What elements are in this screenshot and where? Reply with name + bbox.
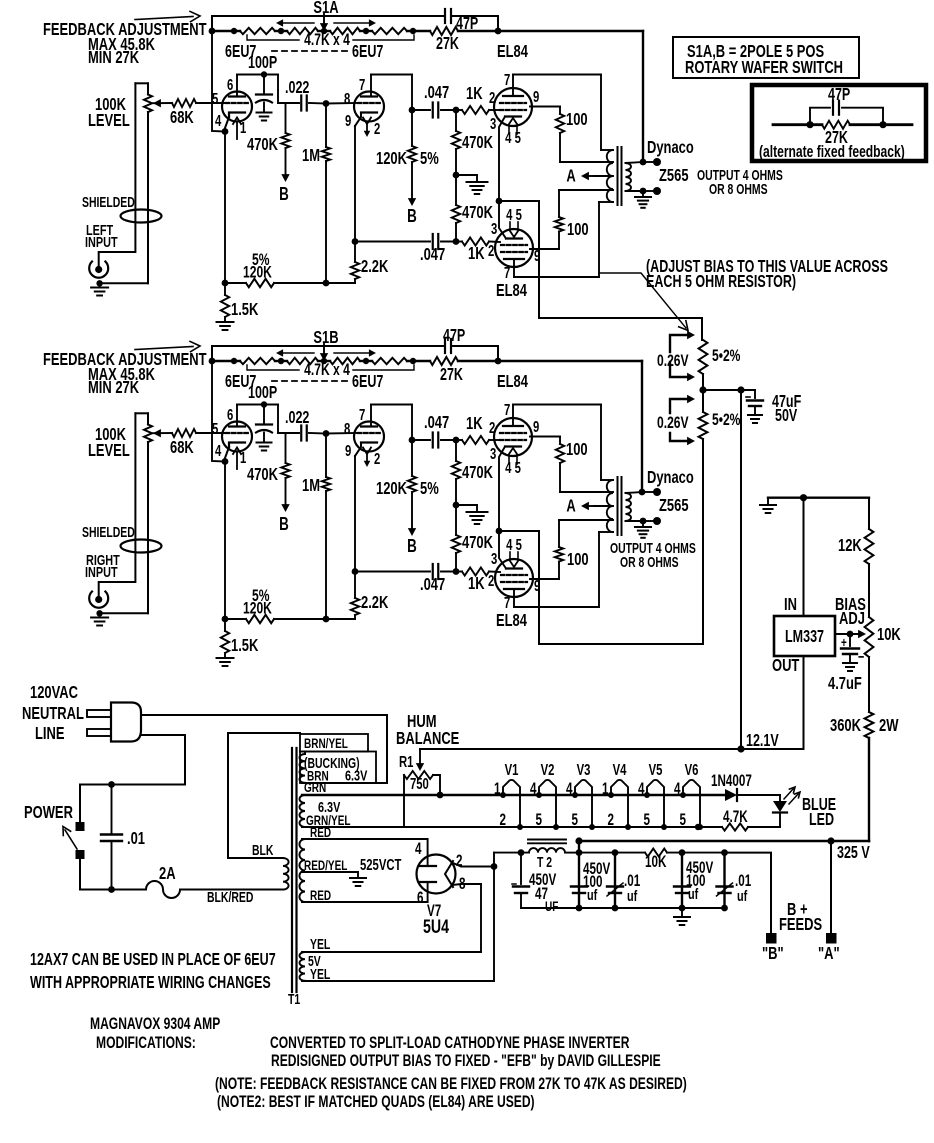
resistor 1K grid stopper lower (right channel) bbox=[456, 571, 462, 573]
capacitor 100P (right channel) bbox=[261, 401, 267, 407]
center tap A arrow (left channel) bbox=[594, 175, 613, 177]
wire feedback to output (right channel) bbox=[498, 360, 642, 362]
wire EL84 lower cathode (left channel) bbox=[499, 201, 506, 239]
choke T2 bbox=[494, 852, 529, 854]
wire top feedback line (right channel) bbox=[212, 345, 444, 347]
input jack right (right channel) bbox=[89, 592, 108, 608]
svg-text:12K: 12K bbox=[838, 536, 862, 556]
wire bottom rail (right channel) bbox=[225, 618, 246, 620]
svg-text:6.3V: 6.3V bbox=[345, 767, 368, 784]
transformer secondary (right channel) bbox=[626, 493, 632, 521]
resistor 120K 5% tail (right channel) bbox=[246, 615, 274, 623]
capacitor 47UF 450V bbox=[518, 849, 525, 856]
svg-text:LM337: LM337 bbox=[785, 627, 824, 647]
svg-text:WITH APPROPRIATE WIRING CHANGE: WITH APPROPRIATE WIRING CHANGES bbox=[30, 973, 271, 993]
transformer output primary (left channel) bbox=[607, 150, 613, 202]
svg-text:MAGNAVOX 9304 AMP: MAGNAVOX 9304 AMP bbox=[90, 1015, 220, 1033]
note adjust bias pointer arrow bbox=[600, 273, 686, 328]
svg-text:470K: 470K bbox=[462, 463, 494, 483]
svg-text:"A": "A" bbox=[818, 944, 840, 964]
capacitor .047 upper (right channel) bbox=[412, 439, 430, 441]
svg-text:uf: uf bbox=[688, 885, 699, 902]
tube EL84 upper (right channel) bbox=[494, 418, 532, 456]
svg-text:470K: 470K bbox=[247, 465, 279, 485]
svg-text:.047: .047 bbox=[424, 83, 449, 103]
wire grid input (left channel) bbox=[196, 102, 226, 104]
svg-text:1: 1 bbox=[602, 779, 609, 797]
transformer T1 5V winding bbox=[300, 952, 306, 981]
center tap A arrow (right channel) bbox=[594, 505, 613, 507]
resistor 120K 5% plate load (left channel) bbox=[411, 110, 413, 146]
svg-text:.022: .022 bbox=[285, 78, 309, 98]
svg-text:4: 4 bbox=[415, 839, 422, 857]
svg-text:B: B bbox=[407, 536, 417, 557]
capacitor .022 (left channel) bbox=[300, 96, 302, 111]
svg-text:4.7K: 4.7K bbox=[723, 807, 748, 825]
center tap ground bbox=[302, 871, 358, 873]
svg-text:47P: 47P bbox=[828, 85, 850, 105]
svg-text:470K: 470K bbox=[462, 203, 494, 223]
wire to splitter grid (right channel) bbox=[326, 432, 358, 435]
svg-text:100: 100 bbox=[566, 440, 588, 460]
svg-text:100P: 100P bbox=[248, 53, 277, 73]
wire LM337 in bbox=[803, 498, 805, 616]
svg-text:4.7uF: 4.7uF bbox=[828, 674, 862, 694]
wire plate node to coupling cap (left channel) bbox=[278, 102, 299, 104]
svg-text:4 5: 4 5 bbox=[505, 129, 521, 146]
svg-text:4.7K x 4: 4.7K x 4 bbox=[304, 361, 350, 379]
bracket 4.7K x 4 label (left channel) bbox=[247, 35, 299, 40]
capacitor 47uF 50V bbox=[747, 389, 755, 391]
wire splitter cathode (left channel) bbox=[354, 126, 356, 242]
svg-text:5: 5 bbox=[212, 90, 219, 107]
svg-text:1: 1 bbox=[494, 779, 501, 797]
svg-text:ADJ: ADJ bbox=[839, 609, 865, 629]
wire input ground (right channel) bbox=[103, 612, 148, 614]
shield ellipse (left channel) bbox=[121, 210, 162, 223]
capacitor .022 (right channel) bbox=[300, 426, 302, 441]
svg-text:BRN/YEL: BRN/YEL bbox=[304, 735, 348, 751]
svg-text:GRN: GRN bbox=[304, 779, 326, 795]
feedback adjustment arrow (left channel) bbox=[135, 17, 193, 20]
svg-text:8: 8 bbox=[344, 90, 351, 107]
svg-text:EACH 5 OHM RESISTOR): EACH 5 OHM RESISTOR) bbox=[646, 272, 796, 292]
svg-text:INPUT: INPUT bbox=[85, 563, 118, 580]
resistor 100 screen upper (left channel) bbox=[530, 106, 560, 108]
svg-text:6EU7: 6EU7 bbox=[352, 42, 383, 62]
label box BUCKING bbox=[300, 752, 376, 784]
svg-text:7: 7 bbox=[504, 264, 510, 281]
wire input ground (left channel) bbox=[103, 282, 148, 284]
tube EL84 lower (right channel) bbox=[495, 559, 533, 597]
ground secondary (right channel) bbox=[642, 521, 644, 527]
svg-text:(NOTE: FEEDBACK RESISTANCE CAN: (NOTE: FEEDBACK RESISTANCE CAN BE FIXED … bbox=[215, 1075, 687, 1093]
ground 470K center (right channel) bbox=[456, 504, 477, 506]
transformer output primary (right channel) bbox=[607, 480, 613, 532]
transformer T1 HV winding 525VCT bbox=[299, 839, 305, 902]
resistor 10K filter bbox=[615, 852, 645, 854]
resistor 120K 5% plate load (right channel) bbox=[411, 440, 413, 476]
svg-text:.047: .047 bbox=[420, 575, 445, 595]
resistor 100 screen upper (right channel) bbox=[530, 436, 560, 438]
svg-text:.022: .022 bbox=[285, 408, 309, 428]
svg-text:3: 3 bbox=[491, 220, 498, 237]
capacitor .01 second bbox=[682, 852, 725, 854]
svg-text:8: 8 bbox=[344, 420, 351, 437]
wire EL84 lower cathode (right channel) bbox=[499, 531, 506, 569]
potentiometer 10K bias adj bbox=[865, 617, 874, 657]
capacitor 4.7uF bbox=[849, 634, 851, 646]
resistor 120K 5% tail (left channel) bbox=[246, 279, 274, 287]
svg-text:S1B: S1B bbox=[313, 328, 338, 348]
wire secondary bottom (right channel) bbox=[626, 520, 644, 522]
svg-text:5: 5 bbox=[536, 810, 543, 828]
resistor 1.5K (right channel) bbox=[224, 619, 226, 631]
ground input jack (left channel) bbox=[91, 287, 108, 289]
svg-text:(NOTE2: BEST IF MATCHED QUADS: (NOTE2: BEST IF MATCHED QUADS (EL84) ARE… bbox=[217, 1093, 535, 1111]
resistor 2.2K (right channel) bbox=[354, 572, 356, 599]
svg-text:FEEDS: FEEDS bbox=[779, 915, 822, 935]
svg-text:1.5K: 1.5K bbox=[231, 636, 259, 656]
svg-text:V1: V1 bbox=[505, 761, 519, 778]
resistor 100 screen lower (right channel) bbox=[530, 578, 559, 580]
svg-text:100: 100 bbox=[566, 110, 588, 130]
wire EL84 lower plate (left channel) bbox=[513, 259, 515, 277]
svg-text:6: 6 bbox=[417, 888, 424, 906]
svg-text:4 5: 4 5 bbox=[505, 459, 521, 476]
svg-text:6: 6 bbox=[227, 76, 234, 93]
ground 1.5K (right channel) bbox=[217, 657, 234, 659]
resistor 470K grid upper (right channel) bbox=[455, 440, 457, 461]
wire fuse to transformer primary bbox=[180, 889, 283, 891]
wire splitter plate (right channel) bbox=[370, 405, 372, 427]
svg-text:5: 5 bbox=[572, 810, 579, 828]
svg-text:525VCT: 525VCT bbox=[360, 856, 402, 873]
svg-text:1N4007: 1N4007 bbox=[711, 771, 752, 789]
svg-text:68K: 68K bbox=[170, 438, 194, 458]
info box alternate fixed feedback bbox=[752, 85, 926, 161]
svg-text:+: + bbox=[841, 634, 847, 650]
resistor 470K grid 1 to B (left channel) bbox=[285, 103, 287, 133]
svg-text:UF: UF bbox=[545, 898, 558, 914]
svg-text:uf: uf bbox=[587, 886, 598, 903]
svg-text:6EU7: 6EU7 bbox=[352, 372, 383, 392]
svg-text:OR 8 OHMS: OR 8 OHMS bbox=[620, 554, 679, 570]
wire heater return GRN/YEL bbox=[302, 826, 722, 828]
resistor 68K (right channel) bbox=[172, 429, 196, 437]
resistor 470K grid 1 to B (right channel) bbox=[285, 433, 287, 463]
svg-text:V4: V4 bbox=[613, 761, 627, 778]
wire neutral with bucking bbox=[141, 715, 387, 783]
svg-text:2A: 2A bbox=[159, 864, 176, 884]
tube EL84 upper (left channel) bbox=[494, 88, 532, 126]
svg-text:SHIELDED: SHIELDED bbox=[82, 524, 135, 540]
svg-text:120VAC: 120VAC bbox=[30, 683, 78, 703]
resistor 1.5K (left channel) bbox=[224, 283, 226, 295]
resistor 1K grid stopper upper (right channel) bbox=[462, 436, 489, 444]
heater V5 bbox=[647, 780, 664, 827]
wire 12.1V output line bbox=[420, 748, 804, 750]
feedback adjustment arrow (right channel) bbox=[135, 347, 193, 350]
svg-text:SHIELDED: SHIELDED bbox=[82, 194, 135, 210]
svg-text:10K: 10K bbox=[877, 625, 901, 645]
wire splitter cathode (right channel) bbox=[354, 456, 356, 572]
svg-text:BLK: BLK bbox=[252, 842, 273, 858]
resistor 470K grid upper (left channel) bbox=[455, 110, 457, 131]
svg-text:47P: 47P bbox=[443, 326, 465, 346]
svg-text:EL84: EL84 bbox=[497, 42, 528, 62]
wire B feed bbox=[725, 853, 772, 933]
svg-text:2: 2 bbox=[488, 242, 495, 259]
diode 1N4007 bbox=[725, 789, 737, 801]
bracket 4.7K x 4 label (right channel) bbox=[247, 365, 299, 370]
wire cathode feedback (left channel) bbox=[212, 31, 225, 132]
tube V 6EU7 triode 1 (left channel) bbox=[222, 92, 252, 122]
wire plate node to coupling cap (right channel) bbox=[278, 432, 299, 434]
svg-text:120K: 120K bbox=[376, 149, 408, 169]
svg-text:5•2%: 5•2% bbox=[712, 411, 740, 429]
switch S1A wiper arrow bbox=[323, 14, 325, 25]
resistor 360K 2W bbox=[865, 712, 874, 738]
svg-text:3: 3 bbox=[491, 550, 498, 567]
capacitor 47P feedback (right channel) bbox=[444, 339, 446, 353]
svg-text:470K: 470K bbox=[462, 533, 494, 553]
wire top feedback line (left channel) bbox=[212, 15, 444, 17]
capacitor 100uF 450V second bbox=[681, 853, 683, 908]
svg-text:2W: 2W bbox=[879, 716, 899, 736]
wire bottom rail (left channel) bbox=[225, 282, 246, 284]
svg-text:1K: 1K bbox=[468, 574, 485, 594]
svg-text:9: 9 bbox=[345, 112, 352, 129]
svg-text:2: 2 bbox=[500, 810, 507, 828]
resistor 100 screen lower (left channel) bbox=[530, 248, 559, 250]
svg-text:B: B bbox=[279, 184, 289, 205]
wire A feed bbox=[830, 841, 832, 933]
svg-text:T1: T1 bbox=[288, 991, 300, 1007]
resistor 4.7K LED dropper bbox=[722, 823, 748, 830]
wire 5U4 filament pin2 bbox=[453, 863, 494, 867]
capacitor .047 upper (left channel) bbox=[412, 109, 430, 111]
wire bias sense to regulator bbox=[740, 390, 742, 749]
input jack left (left channel) bbox=[89, 262, 108, 278]
svg-text:EL84: EL84 bbox=[496, 281, 527, 301]
AC plug bbox=[87, 710, 111, 717]
capacitor .01 first bbox=[614, 853, 616, 908]
svg-text:9: 9 bbox=[533, 88, 540, 105]
svg-text:4: 4 bbox=[530, 779, 537, 797]
wire to splitter grid (left channel) bbox=[326, 102, 358, 105]
wire grid input (right channel) bbox=[196, 432, 226, 434]
wire cathode feedback (right channel) bbox=[212, 361, 225, 462]
wire HV top RED bbox=[302, 838, 428, 840]
svg-text:1K: 1K bbox=[466, 84, 483, 104]
wire input hot (right channel) bbox=[99, 413, 136, 596]
svg-text:4: 4 bbox=[674, 779, 681, 797]
svg-text:CONVERTED TO SPLIT-LOAD CATHOD: CONVERTED TO SPLIT-LOAD CATHODYNE PHASE … bbox=[270, 1034, 630, 1052]
capacitor 47P alternate bbox=[832, 101, 834, 115]
heater V1 bbox=[503, 780, 520, 827]
info box S1A,B rotary switch bbox=[673, 37, 859, 78]
shield ellipse (right channel) bbox=[121, 540, 162, 553]
svg-text:V5: V5 bbox=[649, 761, 663, 778]
svg-text:750: 750 bbox=[410, 775, 429, 792]
svg-text:INPUT: INPUT bbox=[85, 233, 118, 250]
svg-text:A: A bbox=[566, 167, 575, 187]
switch S1A rotation arrows bbox=[282, 22, 314, 24]
wire plate to 100P node (right channel) bbox=[236, 405, 238, 427]
svg-text:5%: 5% bbox=[420, 479, 439, 499]
svg-text:4 5: 4 5 bbox=[506, 206, 522, 223]
svg-text:2: 2 bbox=[488, 572, 495, 589]
fuse 2A bbox=[146, 881, 180, 898]
svg-text:MIN 27K: MIN 27K bbox=[88, 48, 140, 68]
svg-text:B: B bbox=[407, 206, 417, 227]
svg-text:7: 7 bbox=[504, 71, 510, 88]
svg-text:LEVEL: LEVEL bbox=[88, 111, 130, 131]
wire EL84 upper plate (right channel) bbox=[512, 405, 514, 427]
capacitor .01 line filter bbox=[111, 785, 113, 834]
svg-text:27K: 27K bbox=[436, 34, 459, 54]
wire heater line GRN bbox=[302, 794, 725, 796]
svg-text:1.5K: 1.5K bbox=[231, 300, 259, 320]
wire EL84 upper cathode (left channel) bbox=[499, 117, 505, 202]
wire secondary top (right channel) bbox=[626, 492, 644, 493]
capacitor 100uF 450V first bbox=[578, 841, 580, 908]
heater V2 bbox=[539, 780, 556, 827]
svg-text:5U4: 5U4 bbox=[423, 915, 449, 938]
ground input jack (right channel) bbox=[91, 617, 108, 619]
resistor 470K grid lower (left channel) bbox=[455, 175, 457, 205]
wire secondary bottom (left channel) bbox=[626, 190, 644, 192]
svg-text:RED/YEL: RED/YEL bbox=[304, 857, 348, 873]
svg-text:2.2K: 2.2K bbox=[361, 257, 389, 277]
svg-text:4: 4 bbox=[638, 779, 645, 797]
tube EL84 lower (left channel) bbox=[495, 229, 533, 267]
svg-text:RED: RED bbox=[310, 887, 331, 903]
label box BRN/YEL bbox=[300, 734, 368, 752]
switch S1B rotation arrows bbox=[282, 352, 314, 354]
svg-text:9: 9 bbox=[345, 442, 352, 459]
ground 470K center (left channel) bbox=[456, 174, 477, 176]
svg-text:7: 7 bbox=[359, 76, 365, 93]
svg-text:6: 6 bbox=[227, 406, 234, 423]
resistor 27K feedback (right channel) bbox=[430, 357, 458, 365]
svg-text:2: 2 bbox=[374, 120, 381, 137]
svg-text:V6: V6 bbox=[685, 761, 699, 778]
svg-text:5: 5 bbox=[680, 810, 687, 828]
resistor 5 ohm 2% lower bias sense bbox=[699, 412, 708, 439]
svg-text:POWER: POWER bbox=[24, 803, 73, 823]
wire alternate feedback main bbox=[773, 123, 822, 126]
svg-text:4 5: 4 5 bbox=[506, 536, 522, 553]
wire EL84 lower plate (right channel) bbox=[513, 589, 515, 607]
capacitor 100P (left channel) bbox=[261, 71, 267, 77]
svg-text:YEL: YEL bbox=[310, 936, 331, 952]
regulator U1 LM337 bbox=[774, 616, 835, 656]
svg-text:LEVEL: LEVEL bbox=[88, 441, 130, 461]
svg-text:B: B bbox=[279, 514, 289, 535]
heater V4 bbox=[611, 780, 628, 827]
svg-text:5•2%: 5•2% bbox=[712, 347, 740, 365]
svg-text:EL84: EL84 bbox=[497, 372, 528, 392]
arrows 0.26V lower bbox=[670, 399, 688, 413]
svg-text:IN: IN bbox=[784, 595, 797, 615]
svg-text:(alternate fixed feedback): (alternate fixed feedback) bbox=[759, 143, 905, 161]
resistor 5 ohm 2% upper bias sense bbox=[701, 318, 703, 340]
svg-text:V2: V2 bbox=[541, 761, 555, 778]
svg-text:R1: R1 bbox=[399, 753, 414, 770]
svg-text:T 2: T 2 bbox=[537, 854, 552, 870]
tube V 6EU7 triode 2 phase splitter (right channel) bbox=[354, 422, 384, 452]
potentiometer R1 750 hum balance bbox=[419, 749, 421, 764]
wire primary top BLK bbox=[228, 733, 300, 858]
wire bucking bottom bbox=[302, 782, 387, 784]
ground regulator bbox=[767, 498, 769, 505]
svg-text:7: 7 bbox=[504, 401, 510, 418]
wire 5V bottom YEL bbox=[302, 980, 494, 982]
svg-text:BLK/RED: BLK/RED bbox=[207, 889, 253, 905]
capacitor 47P feedback (left channel) bbox=[444, 9, 446, 23]
resistor 68K (left channel) bbox=[172, 99, 196, 107]
svg-text:1M: 1M bbox=[302, 146, 320, 166]
svg-text:0.26V: 0.26V bbox=[657, 352, 689, 370]
svg-text:1K: 1K bbox=[468, 244, 485, 264]
tube V 6EU7 triode 2 phase splitter (left channel) bbox=[354, 92, 384, 122]
tube V7 5U4 rectifier bbox=[417, 855, 456, 894]
svg-text:LED: LED bbox=[809, 810, 834, 830]
transformer core (right channel) bbox=[617, 477, 619, 535]
svg-text:uf: uf bbox=[737, 887, 748, 904]
svg-text:5: 5 bbox=[212, 420, 219, 437]
svg-text:2.2K: 2.2K bbox=[361, 593, 389, 613]
svg-text:OR 8 OHMS: OR 8 OHMS bbox=[709, 181, 768, 197]
svg-text:50V: 50V bbox=[775, 406, 797, 426]
wire LM337 out bbox=[803, 656, 805, 749]
svg-text:100P: 100P bbox=[248, 383, 277, 403]
svg-text:120K: 120K bbox=[243, 600, 272, 618]
svg-text:2: 2 bbox=[608, 810, 615, 828]
wire EL84 upper cathode (right channel) bbox=[499, 447, 505, 532]
svg-text:12.1V: 12.1V bbox=[746, 731, 779, 751]
svg-text:Z565: Z565 bbox=[659, 496, 689, 516]
wire alternate bypass loop bbox=[810, 108, 830, 125]
svg-text:OUT: OUT bbox=[772, 656, 800, 676]
resistor 1K grid stopper lower (left channel) bbox=[456, 241, 462, 243]
transformer T1 core bbox=[291, 748, 293, 992]
svg-text:470K: 470K bbox=[247, 135, 279, 155]
switch S1B wiper arrow bbox=[323, 344, 325, 355]
svg-text:.01: .01 bbox=[127, 829, 145, 849]
resistor 1M (left channel) bbox=[323, 100, 330, 107]
resistor 1K grid stopper upper (left channel) bbox=[462, 106, 489, 114]
tube V 6EU7 triode 1 (right channel) bbox=[222, 422, 252, 452]
transformer core (left channel) bbox=[617, 147, 619, 205]
heater V6 bbox=[683, 780, 700, 827]
node junction bias sense bbox=[699, 386, 706, 393]
svg-text:LINE: LINE bbox=[35, 724, 65, 744]
svg-text:YEL: YEL bbox=[310, 966, 331, 982]
transformer secondary (left channel) bbox=[626, 163, 632, 191]
resistor 1M (right channel) bbox=[323, 430, 330, 437]
svg-text:MIN 27K: MIN 27K bbox=[88, 378, 140, 398]
svg-text:.047: .047 bbox=[420, 245, 445, 265]
wire EL84 upper plate (left channel) bbox=[512, 75, 514, 97]
svg-text:27K: 27K bbox=[440, 365, 463, 385]
wire secondary top (left channel) bbox=[626, 162, 644, 163]
wire LM337 adj wiper bbox=[835, 633, 858, 635]
svg-text:470K: 470K bbox=[462, 133, 494, 153]
wire input hot (left channel) bbox=[99, 83, 136, 266]
